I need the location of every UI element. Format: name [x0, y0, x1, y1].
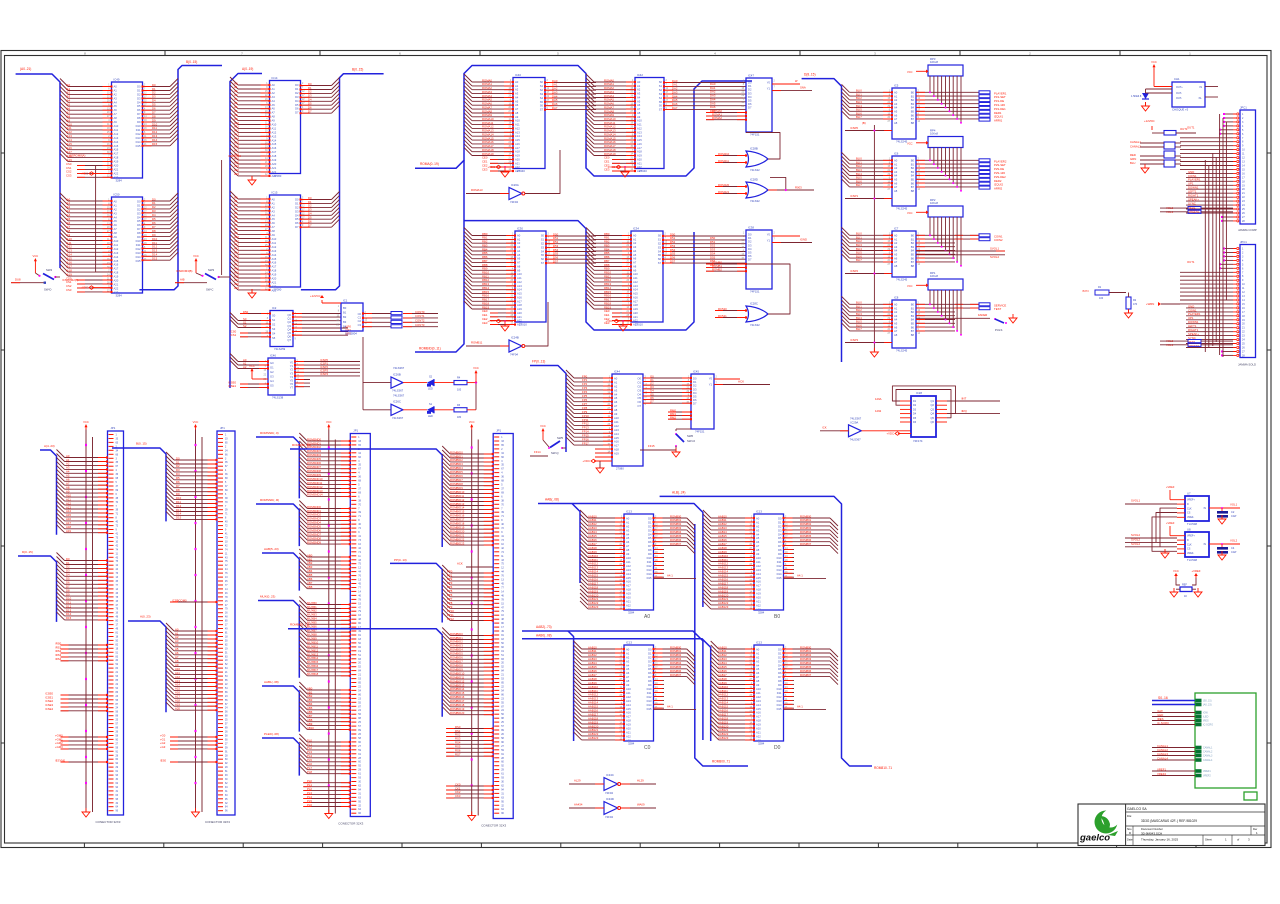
svg-text:A0A1A2A3A4A5A6A7A8: A0A1A2A3A4A5A6A7A8: [894, 91, 898, 125]
svg-text:SW5: SW5: [557, 436, 564, 440]
svg-text:D0D1D2D3D4D5D6D7D8D9D10D11D12D: D0D1D2D3D4D5D6D7D8D9D10D11D12D13D14D15: [136, 85, 141, 148]
svg-text:74LS245: 74LS245: [896, 139, 908, 143]
svg-text:BLI0BLI1BLI2BLI3BLI4BLI5BLI6BL: BLI0BLI1BLI2BLI3BLI4BLI5BLI6BLI7: [856, 89, 862, 120]
svg-text:VREF1: VREF1: [1157, 768, 1166, 772]
svg-text:OUT+: OUT+: [1176, 86, 1183, 89]
svg-text:VCC: VCC: [33, 254, 39, 258]
svg-text:3D-9M043.SCH: 3D-9M043.SCH: [1141, 831, 1162, 835]
svg-text:GAELCO SA: GAELCO SA: [1127, 807, 1147, 811]
svg-text:ACK: ACK: [738, 380, 744, 384]
svg-text:A0A1A2A3A4A5A6A7A8: A0A1A2A3A4A5A6A7A8: [894, 234, 898, 268]
svg-text:IN-: IN-: [1199, 97, 1203, 100]
svg-text:D0D1D2D3D4D5D6D7: D0D1D2D3D4D5D6D7: [693, 377, 697, 406]
svg-text:COIN1COIN2: COIN1COIN2: [994, 234, 1003, 242]
svg-text:IC13: IC13: [756, 510, 762, 514]
svg-text:IC34D: IC34D: [606, 797, 614, 801]
svg-text:OUT-: OUT-: [1176, 92, 1182, 95]
svg-text:JP1: JP1: [220, 426, 225, 430]
svg-text:VCC: VCC: [193, 420, 199, 424]
svg-text:IC5: IC5: [894, 84, 899, 88]
svg-text:VOL1: VOL1: [1230, 503, 1238, 507]
svg-text:IC28C: IC28C: [750, 302, 758, 306]
svg-text:A0A1A2: A0A1A2: [243, 358, 247, 369]
svg-text:74F174: 74F174: [913, 439, 923, 443]
svg-text:CS0CS1CS2CS3: CS0CS1CS2CS3: [66, 162, 72, 178]
svg-text:Y0Y1Y2Y3Y4Y5Y6Y7: Y0Y1Y2Y3Y4Y5Y6Y7: [290, 361, 294, 390]
svg-text:C0C1C2C3: C0C1C2C3: [358, 312, 362, 327]
svg-text:CANAL4: CANAL4: [1203, 759, 1213, 762]
svg-text:+VDC: +VDC: [487, 319, 495, 323]
svg-text:VCC: VCC: [249, 364, 255, 368]
svg-text:ROM800ROM801ROM802ROM803ROM804: ROM800ROM801ROM802ROM803ROM804ROM805ROM8…: [670, 645, 682, 677]
svg-text:74F151: 74F151: [750, 289, 760, 293]
svg-text:S0..16: S0..16: [1158, 696, 1168, 700]
svg-text:IN: IN: [1200, 86, 1203, 89]
svg-text:IC7: IC7: [894, 227, 899, 231]
svg-text:CAP: CAP: [1231, 514, 1237, 518]
svg-text:D50: D50: [243, 310, 249, 314]
svg-text:CONT0CONT1CONT2CONT3: CONT0CONT1CONT2CONT3: [415, 310, 425, 327]
svg-text:VOL2: VOL2: [1230, 539, 1238, 543]
svg-text:AAB(5..23): AAB(5..23): [264, 547, 279, 551]
svg-text:10Kx8: 10Kx8: [930, 132, 938, 136]
svg-text:SW-D: SW-D: [44, 288, 51, 292]
svg-text:VCC: VCC: [907, 142, 913, 146]
svg-text:/ESYN0: /ESYN0: [55, 758, 65, 762]
svg-text:+VDC: +VDC: [582, 459, 590, 463]
svg-text:/CSP0/CSP1/CSP2/CSP3/CSP4: /CSP0/CSP1/CSP2/CSP3/CSP4: [320, 358, 329, 376]
svg-text:SVOL2: SVOL2: [1131, 537, 1140, 541]
svg-text:74LS32: 74LS32: [750, 168, 760, 172]
svg-text:SVOL2: SVOL2: [990, 255, 999, 259]
svg-text:+VDC: +VDC: [886, 432, 894, 436]
svg-text:IC26B: IC26B: [393, 373, 401, 377]
svg-text:IC8: IC8: [894, 296, 899, 300]
svg-text:VCC: VCC: [907, 70, 913, 74]
svg-text:A(4..23): A(4..23): [44, 444, 55, 448]
svg-text:IC13: IC13: [756, 641, 762, 645]
svg-text:74LS245: 74LS245: [896, 348, 908, 352]
svg-text:O0O1O2O3O4O5O6O7: O0O1O2O3O4O5O6O7: [637, 377, 641, 409]
svg-text:B0: B0: [774, 614, 780, 620]
svg-text:/CSE0/CSE1: /CSE0/CSE1: [228, 380, 237, 388]
svg-text:ROMSND(..R): ROMSND(..R): [260, 498, 279, 502]
svg-text:1292: 1292: [875, 409, 882, 413]
svg-text:REF: REF: [1182, 584, 1187, 587]
svg-text:S0S1S2S3S4S5S6S7: S0S1S2S3S4S5S6S7: [541, 234, 545, 266]
svg-text:A/B: A/B: [180, 278, 185, 282]
svg-text:RS0RS1RS2RS3RS4RS5RS6RS7: RS0RS1RS2RS3RS4RS5RS6RS7: [455, 725, 461, 757]
svg-text:B0B1B2B3B4B5B6B7B8: B0B1B2B3B4B5B6B7B8: [911, 91, 915, 125]
svg-text:D0D1D2D3D4D5D6D7: D0D1D2D3D4D5D6D7: [308, 196, 312, 228]
svg-text:LED: LED: [428, 388, 433, 391]
svg-text:RM0RM1RM2: RM0RM1RM2: [670, 408, 676, 419]
svg-text:SVOL2: SVOL2: [1131, 533, 1140, 537]
svg-text:74LS367: 74LS367: [850, 417, 862, 421]
svg-text:74F04: 74F04: [510, 353, 518, 357]
svg-text:ROMSND(..0): ROMSND(..0): [260, 431, 279, 435]
svg-text:JPC1: JPC1: [1240, 106, 1247, 110]
svg-text:ROMB0ROMB1ROMB2: ROMB0ROMB1ROMB2: [712, 260, 722, 271]
svg-text:/INT: /INT: [961, 397, 967, 401]
svg-text:74LS245: 74LS245: [896, 206, 908, 210]
svg-text:VCC: VCC: [83, 420, 89, 424]
svg-text:DA0DA1DA2DA3DA4DA5DA6DA7: DA0DA1DA2DA3DA4DA5DA6DA7: [672, 79, 678, 110]
svg-text:gaelco: gaelco: [1079, 833, 1110, 844]
svg-text:74F151: 74F151: [695, 429, 705, 433]
svg-text:ROMA13: ROMA13: [471, 188, 483, 192]
svg-text:(A0..23): (A0..23): [1203, 704, 1212, 707]
svg-text:/CSE0/CSE1/CSE2/CSE3/CSE4: /CSE0/CSE1/CSE2/CSE3/CSE4: [45, 691, 54, 711]
svg-text:SW4: SW4: [46, 268, 53, 272]
svg-text:OUT-: OUT-: [1176, 97, 1182, 100]
svg-text:ROMBID0ROMBID1ROMBID2ROMBID3RO: ROMBID0ROMBID1ROMBID2ROMBID3ROMBID4ROMBI…: [450, 632, 465, 715]
svg-text:VCC: VCC: [907, 284, 913, 288]
svg-text:B0B1B2B3B4B5B6B7B8: B0B1B2B3B4B5B6B7B8: [911, 234, 915, 268]
svg-text:WA09: WA09: [637, 803, 645, 807]
svg-text:AL29: AL29: [574, 779, 581, 783]
svg-text:VCC: VCC: [326, 420, 332, 424]
svg-text:Date:: Date:: [1127, 838, 1133, 842]
svg-text:IC46: IC46: [270, 354, 276, 358]
svg-text:JP1: JP1: [353, 429, 358, 433]
svg-text:10Kx8: 10Kx8: [930, 201, 938, 205]
svg-text:+G0+G1+G2+G3: +G0+G1+G2+G3: [160, 733, 166, 749]
svg-text:/GW: /GW: [1203, 712, 1209, 715]
svg-text:D0D1D2D3D4D5D6D7D8D9D10D11D12D: D0D1D2D3D4D5D6D7D8D9D10D11D12D13D14D15: [777, 517, 782, 580]
svg-text:IC34C: IC34C: [606, 773, 614, 777]
svg-text:AAB0(..08): AAB0(..08): [536, 633, 552, 637]
svg-text:AAB2(..73): AAB2(..73): [536, 625, 552, 629]
svg-text:27080: 27080: [616, 466, 624, 470]
svg-text:1K: 1K: [1184, 595, 1187, 598]
svg-text:ROMBID(0..11): ROMBID(0..11): [419, 347, 441, 351]
svg-text:74LS367: 74LS367: [392, 416, 404, 420]
svg-text:SVOL2: SVOL2: [1131, 542, 1140, 546]
svg-text:ROMSND0ROMSND1ROMSND2ROMSND3RO: ROMSND0ROMSND1ROMSND2ROMSND3ROMSND4ROMSN…: [307, 505, 321, 545]
svg-text:IC49: IC49: [114, 78, 120, 82]
svg-text:74LS367: 74LS367: [393, 366, 405, 370]
svg-text:File:: File:: [1127, 814, 1132, 818]
svg-text:VCC: VCC: [469, 420, 475, 424]
svg-text:+WRN: +WRN: [1146, 302, 1154, 306]
svg-text:A4.1: A4.1: [797, 705, 803, 709]
svg-text:D0: D0: [774, 745, 781, 751]
svg-text:+VDC: +VDC: [80, 286, 88, 290]
svg-text:DU8: DU8: [15, 278, 21, 282]
svg-text:LED: LED: [428, 415, 433, 418]
svg-text:A0A1A2A3A4A5A6A7A8: A0A1A2A3A4A5A6A7A8: [894, 303, 898, 337]
svg-text:IC28: IC28: [916, 391, 922, 395]
svg-text:IC38: IC38: [748, 226, 754, 230]
svg-text:IN: IN: [1204, 507, 1207, 510]
svg-text:ROMB11: ROMB11: [471, 341, 483, 345]
svg-text:IC13: IC13: [626, 510, 632, 514]
svg-text:VREF2: VREF2: [1157, 772, 1166, 776]
svg-text:TLC548: TLC548: [1187, 522, 1197, 526]
svg-text:BLI0BLI1BLI2BLI3BLI4BLI5BLI6BL: BLI0BLI1BLI2BLI3BLI4BLI5BLI6BLI7: [856, 301, 862, 332]
svg-text:JAMMA SOLD: JAMMA SOLD: [1238, 363, 1256, 367]
svg-text:FP(0..13): FP(0..13): [532, 360, 545, 364]
svg-text:HL29: HL29: [637, 779, 644, 783]
svg-text:74F04: 74F04: [510, 200, 518, 204]
svg-text:+VDC: +VDC: [605, 319, 613, 323]
svg-text:CONECTOR 32X3: CONECTOR 32X3: [481, 824, 506, 828]
svg-text:VCC: VCC: [907, 211, 913, 215]
svg-text:S0S1S2S3S4S5S6S7: S0S1S2S3S4S5S6S7: [658, 234, 662, 266]
svg-text:Thursday, January 16, 2025: Thursday, January 16, 2025: [1141, 838, 1178, 842]
svg-text:A0: A0: [644, 614, 650, 620]
svg-text:VCC: VCC: [193, 254, 199, 258]
svg-text:DA0DA1DA2DA3DA4DA5DA6DA7: DA0DA1DA2DA3DA4DA5DA6DA7: [552, 79, 558, 110]
svg-text:/SYN: /SYN: [1082, 289, 1089, 293]
svg-text:SNA: SNA: [800, 86, 806, 90]
svg-text:IC28B: IC28B: [750, 147, 758, 151]
svg-text:A4.1: A4.1: [667, 705, 673, 709]
svg-text:PL0PL1PL2PL3PL4PL5PL6PL7PL8: PL0PL1PL2PL3PL4PL5PL6PL7PL8: [307, 738, 312, 774]
svg-text:PP(0..13): PP(0..13): [394, 558, 407, 562]
svg-text:IC40: IC40: [515, 73, 521, 77]
svg-text:CANAL3: CANAL3: [1203, 755, 1213, 758]
svg-text:/RES: /RES: [1203, 720, 1209, 723]
svg-text:/CSP0: /CSP0: [850, 126, 859, 130]
svg-text:+GM0+GM1+GM2+GM3: +GM0+GM1+GM2+GM3: [55, 733, 63, 749]
svg-text:IC14: IC14: [272, 76, 278, 80]
svg-text:IC13: IC13: [626, 641, 632, 645]
svg-text:IC15: IC15: [272, 191, 278, 195]
svg-text:74F04: 74F04: [605, 815, 613, 819]
svg-text:CAP: CAP: [1231, 550, 1237, 554]
svg-text:(B): (B): [862, 121, 866, 125]
svg-text:D(8..15): D(8..15): [804, 73, 816, 77]
svg-text:FADER: FADER: [978, 313, 987, 317]
svg-text:SVOL1: SVOL1: [990, 247, 999, 251]
svg-text:D0D1D2D3D4D5D6D7: D0D1D2D3D4D5D6D7: [295, 83, 299, 115]
svg-text:D0D1D2D3D4D5D6D7D8D9D10D11D12D: D0D1D2D3D4D5D6D7D8D9D10D11D12D13D14D15: [136, 200, 141, 263]
svg-text:(S0..15): (S0..15): [1203, 700, 1212, 703]
svg-text:VCC: VCC: [540, 424, 546, 428]
svg-text:JP1: JP1: [496, 429, 501, 433]
svg-text:AAB(..08): AAB(..08): [545, 498, 559, 502]
svg-text:/C-SCRO: /C-SCRO: [1157, 721, 1170, 725]
svg-text:D50D51D52D53D54D55D56D57: D50D51D52D53D54D55D56D57: [670, 232, 676, 263]
svg-text:(A0..21): (A0..21): [20, 67, 31, 71]
svg-text:D0D1D2D3D4D5D6D7D8D9D10D11D12D: D0D1D2D3D4D5D6D7D8D9D10D11D12D13D14D15: [647, 648, 652, 711]
svg-text:IC50: IC50: [114, 193, 120, 197]
svg-text:S0S1S2: S0S1S2: [243, 317, 247, 328]
svg-text:IC30: IC30: [517, 227, 523, 231]
svg-text:C4: C4: [1231, 546, 1235, 550]
svg-text:VREF2: VREF2: [1203, 775, 1211, 778]
svg-text:74LS32: 74LS32: [750, 199, 760, 203]
svg-text:AA434: AA434: [574, 803, 583, 807]
svg-text:CANAL4: CANAL4: [1157, 757, 1168, 761]
svg-text:+VREF: +VREF: [1166, 485, 1175, 489]
svg-text:/ES0: /ES0: [160, 758, 167, 762]
svg-text:VCC: VCC: [473, 366, 479, 370]
svg-text:SW-Q: SW-Q: [551, 451, 559, 455]
svg-text:CONECTOR 32X3: CONECTOR 32X3: [96, 820, 121, 824]
svg-text:SW-C: SW-C: [206, 288, 213, 292]
svg-text:A(0..23): A(0..23): [140, 615, 151, 619]
svg-text:SVOL1: SVOL1: [1131, 499, 1140, 503]
svg-text:ALB(..24): ALB(..24): [672, 491, 685, 495]
svg-text:S0S1S2S3S4S5S6S7: S0S1S2S3S4S5S6S7: [540, 80, 544, 112]
svg-text:/CK: /CK: [822, 426, 827, 430]
svg-text:SW-CI: SW-CI: [687, 439, 695, 443]
svg-text:S0S1S2S3S4S5S6S7: S0S1S2S3S4S5S6S7: [659, 80, 663, 112]
svg-text:Sheet: Sheet: [1205, 838, 1212, 842]
svg-text:B(0..15): B(0..15): [186, 60, 197, 64]
svg-text:JAMMA COMP: JAMMA COMP: [1238, 228, 1257, 232]
svg-text:D0D1D2D3D4D5D6D7: D0D1D2D3D4D5D6D7: [748, 233, 752, 262]
svg-text:VCC: VCC: [1151, 60, 1157, 64]
svg-text:/CSBCOM0: /CSBCOM0: [172, 598, 187, 602]
svg-text:IC26C: IC26C: [393, 400, 401, 404]
svg-text:IGND: IGND: [800, 238, 807, 242]
svg-text:CHOQUE +5: CHOQUE +5: [1172, 108, 1189, 112]
svg-text:ROM800..71: ROM800..71: [712, 760, 730, 764]
svg-text:MUX(0..23): MUX(0..23): [260, 595, 275, 599]
svg-text:/IRQ: /IRQ: [961, 409, 968, 413]
svg-text:3D3G (MASCARAS 42F..) REF-9810: 3D3G (MASCARAS 42F..) REF-981029: [1141, 819, 1197, 823]
svg-text:TLC548: TLC548: [1187, 558, 1197, 562]
svg-text:IC47: IC47: [748, 74, 754, 78]
svg-text:ROMA(0..19): ROMA(0..19): [420, 162, 439, 166]
svg-text:D0D1D2D3D4D5D6D7: D0D1D2D3D4D5D6D7: [308, 82, 312, 114]
svg-text:AB0AB1AB2AB3AB4AB5AB6AB7AB8: AB0AB1AB2AB3AB4AB5AB6AB7AB8: [307, 553, 313, 589]
svg-text:FF14: FF14: [534, 450, 541, 454]
svg-text:180: 180: [457, 416, 462, 419]
svg-text:74LS259: 74LS259: [274, 347, 286, 351]
svg-text:OUT1: OUT1: [1187, 125, 1195, 129]
svg-text:A4.1: A4.1: [667, 574, 673, 578]
svg-text:D0D1D2D3D4D5D6D7D8D9D10D11D12D: D0D1D2D3D4D5D6D7D8D9D10D11D12D13D14D15: [777, 648, 782, 711]
svg-text:IC29A: IC29A: [851, 420, 859, 424]
svg-text:CANAL1: CANAL1: [1203, 747, 1213, 750]
svg-text:100: 100: [1099, 297, 1104, 300]
svg-text:IC42: IC42: [637, 73, 643, 77]
svg-text:CANAL3: CANAL3: [1157, 752, 1168, 756]
svg-text:IC34: IC34: [633, 227, 639, 231]
svg-text:PLED(..08): PLED(..08): [264, 732, 279, 736]
svg-text:74LS367: 74LS367: [392, 389, 404, 393]
svg-text:AAB1(..08): AAB1(..08): [264, 680, 279, 684]
svg-text:B0B1B2B3B4B5B6B7B8: B0B1B2B3B4B5B6B7B8: [911, 159, 915, 193]
svg-text:D0D1D2D3D4D5D6D7: D0D1D2D3D4D5D6D7: [295, 198, 299, 230]
svg-text:/RS0/RS1/RS2/RS3/RS4: /RS0/RS1/RS2/RS3/RS4: [55, 641, 62, 661]
svg-text:U7: U7: [1187, 492, 1191, 496]
svg-text:C2: C2: [1231, 510, 1235, 514]
svg-text:U8: U8: [1187, 528, 1191, 532]
svg-text:ROMA0ROMA1ROMA2: ROMA0ROMA1ROMA2: [712, 109, 722, 120]
svg-text:ULN2804: ULN2804: [345, 331, 357, 335]
svg-text:ROM800ROM801ROM802ROM803ROM804: ROM800ROM801ROM802ROM803ROM804ROM805ROM8…: [670, 514, 682, 546]
svg-text:1.5KE6.8: 1.5KE6.8: [1131, 95, 1142, 98]
svg-text:CONECTOR 32X3: CONECTOR 32X3: [338, 822, 363, 826]
svg-text:A0A1A2A3A4A5A6A7A8: A0A1A2A3A4A5A6A7A8: [894, 159, 898, 193]
svg-text:VCC: VCC: [1173, 569, 1179, 573]
svg-text:+VREF: +VREF: [1166, 521, 1175, 525]
svg-text:74F04: 74F04: [605, 791, 613, 795]
svg-text:PL0PL1PL2PL3PL4PL5PL6: PL0PL1PL2PL3PL4PL5PL6: [307, 779, 312, 807]
svg-text:ROM800ROM801ROM802ROM803ROM804: ROM800ROM801ROM802ROM803ROM804ROM805ROM8…: [800, 514, 812, 546]
svg-text:74LS138: 74LS138: [272, 395, 284, 399]
svg-text:IC45: IC45: [693, 370, 699, 374]
svg-text:470: 470: [1133, 303, 1138, 306]
svg-text:ACK: ACK: [457, 562, 463, 566]
svg-text:R003: R003: [795, 186, 802, 190]
svg-text:B0B1B2B3B4B5B6B7B8: B0B1B2B3B4B5B6B7B8: [911, 303, 915, 337]
svg-text:B(0..15): B(0..15): [352, 68, 363, 72]
svg-text:IC1: IC1: [343, 299, 348, 303]
svg-text:BLI0BLI1BLI2BLI3BLI4BLI5BLI6BL: BLI0BLI1BLI2BLI3BLI4BLI5BLI6BLI7: [856, 157, 862, 188]
svg-text:D0D1D2D3D4D5D6D7: D0D1D2D3D4D5D6D7: [748, 81, 752, 110]
svg-text:ROMBID(..29): ROMBID(..29): [292, 443, 311, 447]
svg-text:IN: IN: [1204, 543, 1207, 546]
svg-text:CK0CK1CK2CK3: CK0CK1CK2CK3: [455, 782, 461, 798]
svg-text:/C-SCRO: /C-SCRO: [1203, 724, 1213, 727]
svg-text:74LS367: 74LS367: [850, 437, 862, 441]
svg-text:129A: 129A: [875, 397, 882, 401]
svg-text:Q0Q1Q2Q3Q4Q5Q6Q7: Q0Q1Q2Q3Q4Q5Q6Q7: [287, 313, 291, 342]
svg-text:/CSP3: /CSP3: [850, 338, 859, 342]
svg-text:ROMBID(..21): ROMBID(..21): [290, 623, 309, 627]
svg-text:D(0..15): D(0..15): [22, 550, 33, 554]
svg-text:+12VDC: +12VDC: [1144, 119, 1155, 123]
svg-text:IC44: IC44: [614, 370, 620, 374]
svg-text:B(0..15): B(0..15): [136, 442, 147, 446]
svg-text:A(0..19): A(0..19): [242, 67, 253, 71]
svg-text:IC2: IC2: [272, 306, 277, 310]
svg-text:CANAL2: CANAL2: [1203, 751, 1213, 754]
svg-text:10Kx8: 10Kx8: [930, 60, 938, 64]
svg-text:SW6: SW6: [687, 434, 694, 438]
svg-text:74LS32: 74LS32: [750, 323, 760, 327]
svg-text:100: 100: [457, 389, 462, 392]
svg-text:+VDC: +VDC: [487, 165, 495, 169]
svg-text:/CSROM2(B): /CSROM2(B): [62, 278, 79, 282]
svg-text:+12VCC: +12VCC: [310, 294, 321, 298]
svg-text:/CSROM3(B): /CSROM3(B): [176, 269, 193, 273]
svg-text:CH1: CH1: [1174, 77, 1180, 81]
svg-text:/CSROM8(A): /CSROM8(A): [69, 154, 86, 158]
svg-text:+VREF: +VREF: [1191, 569, 1200, 573]
svg-text:C0: C0: [644, 745, 651, 751]
svg-text:IC28D: IC28D: [750, 178, 758, 182]
svg-text:74LS245: 74LS245: [896, 277, 908, 281]
svg-text:ROMBID0ROMBID1ROMBID2ROMBID3RO: ROMBID0ROMBID1ROMBID2ROMBID3ROMBID4ROMBI…: [450, 450, 465, 545]
svg-text:IC24B: IC24B: [511, 336, 519, 340]
svg-text:ROM810..71: ROM810..71: [874, 766, 892, 770]
svg-text:IC26A: IC26A: [511, 183, 519, 187]
svg-text:/CSP1: /CSP1: [850, 194, 859, 198]
svg-text:A4.1: A4.1: [797, 574, 803, 578]
svg-text:CANAL1CANAL2: CANAL1CANAL2: [1130, 140, 1141, 149]
svg-text:+VDC: +VDC: [80, 172, 88, 176]
svg-text:D50D51D52D53D54D55D56D57: D50D51D52D53D54D55D56D57: [553, 232, 559, 263]
svg-text:+VDC: +VDC: [607, 165, 615, 169]
svg-text:/CS0/CS1: /CS0/CS1: [230, 329, 237, 337]
svg-text:of: of: [1237, 838, 1239, 842]
svg-text:JPC1: JPC1: [1240, 240, 1247, 244]
svg-text:IC6: IC6: [894, 152, 899, 156]
svg-text:/LED: /LED: [1203, 716, 1209, 719]
svg-text:SW3: SW3: [208, 268, 215, 272]
svg-text:PULS: PULS: [995, 328, 1002, 332]
svg-text:ROM800ROM801ROM802ROM803ROM804: ROM800ROM801ROM802ROM803ROM804ROM805ROM8…: [800, 645, 812, 677]
svg-text:10Kx8: 10Kx8: [930, 274, 938, 278]
